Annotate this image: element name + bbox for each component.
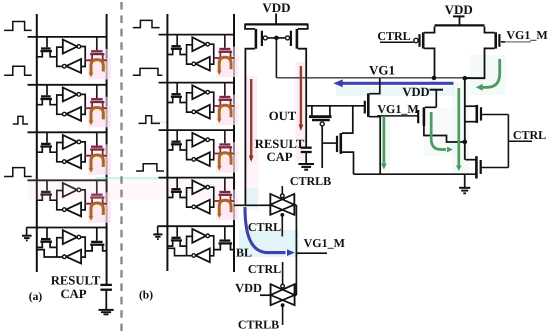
cell a3 [28, 132, 112, 175]
node pulse waveform row3 [13, 116, 28, 124]
transmission gate TG2 [271, 284, 295, 307]
wire VDD rail [245, 23, 308, 25]
wire VDD rail right [435, 24, 485, 26]
svg-text:CTRLB: CTRLB [238, 318, 279, 332]
cell a2 [28, 85, 112, 128]
transistor PMOS left of mirror pair [255, 29, 258, 49]
node pulse waveform row4 b [136, 164, 164, 171]
svg-text:VDD: VDD [402, 85, 429, 99]
glow pink red arrow 2 [296, 62, 307, 161]
wire ground rail [354, 173, 477, 175]
node dot VG1M lower [463, 140, 468, 145]
svg-text:CTRL: CTRL [513, 128, 546, 142]
annotation green arrow G3 [431, 112, 446, 150]
separator dashed line [120, 2, 122, 331]
svg-text:VDD: VDD [262, 0, 290, 15]
cell b3 [159, 130, 239, 173]
wire gate node [267, 37, 285, 39]
svg-text:CTRL: CTRL [248, 262, 281, 276]
wire OUT node horizontal [306, 105, 365, 107]
cell a4 [28, 180, 112, 223]
artifact faint pink band row4 [28, 179, 237, 200]
svg-text:BL: BL [236, 245, 252, 259]
svg-text:CTRL: CTRL [248, 220, 281, 234]
transistor VG1_M (top right, no bubble) [498, 34, 500, 47]
wire bitline column b [233, 14, 235, 272]
wire VDD stem [275, 14, 277, 25]
svg-text:VDD: VDD [445, 2, 473, 17]
svg-text:OUT: OUT [269, 109, 297, 123]
capacitor RESULT CAP column a [100, 284, 112, 286]
capacitor MOS boost (CTRL) [466, 105, 477, 107]
transistor NMOS precharge (gate CTRLB) [336, 136, 338, 152]
annotation blue arrow VG1 [341, 82, 454, 85]
cell b4 [159, 178, 239, 221]
wire VG1 net [276, 77, 484, 79]
svg-text:RESULT: RESULT [51, 273, 101, 287]
node pulse waveform row2 b [133, 68, 163, 75]
transmission gate TG1 [281, 186, 283, 194]
wire CTRL loop vertical [507, 115, 509, 168]
wire VDD T lower [430, 89, 444, 91]
annotation green arrow G1 [383, 117, 386, 164]
wire VG1M node vertical [464, 78, 466, 160]
annotation red arrow 1 [250, 79, 252, 156]
wire bus line column a [36, 14, 38, 272]
node dot VG1 right [463, 76, 468, 81]
svg-text:CTRLB: CTRLB [290, 174, 331, 188]
svg-text:CAP: CAP [266, 150, 292, 164]
wire CTRLB line [321, 126, 323, 168]
node dot VG1 left [432, 76, 437, 81]
glow cyan blue arrow 2 [239, 230, 299, 257]
svg-text:VG1: VG1 [369, 63, 395, 78]
artifact cyan streak [95, 177, 175, 179]
wire VG1_M gate lead gray [501, 41, 531, 43]
wire bus line column b [166, 14, 168, 271]
cell a5 [22, 228, 107, 264]
cell b1 [159, 35, 239, 78]
wire output column line a [106, 14, 108, 285]
capacitor MOS boost cap (CTRLB) [311, 106, 313, 116]
transistor PMOS CTRL (top right) [414, 38, 418, 42]
wire VG1_M stub [296, 252, 327, 254]
wire CTRL underline [508, 140, 532, 142]
node gate junction dot [274, 36, 279, 41]
capacitor RESULT CAP mid [301, 147, 312, 149]
cell b5 [153, 226, 234, 262]
svg-text:CTRL: CTRL [377, 29, 410, 43]
wire TG2 CTRLB stub [282, 305, 284, 325]
cell b2 [159, 83, 239, 126]
node pulse waveform row1 [4, 22, 32, 31]
wire TG vertical connector [295, 205, 297, 295]
svg-text:CAP: CAP [60, 287, 86, 301]
transistor NMOS discharge (gate CTRL) [466, 159, 477, 161]
glow cyan right areas [470, 55, 506, 95]
wire VDD to TG2 [260, 294, 271, 296]
wire gate node down [275, 38, 277, 78]
wire VDD stem right [453, 15, 465, 17]
cell a1 [28, 37, 112, 80]
wire CTRL gate lead [380, 41, 414, 43]
node pulse waveform row2 [4, 66, 32, 75]
annotation blue arrow 2 (BL to VG1_M) [245, 207, 286, 253]
svg-text:VDD: VDD [235, 281, 262, 295]
svg-text:VG1_M: VG1_M [377, 102, 418, 116]
wire BL horizontal [234, 204, 258, 206]
transistor follower (gate from OUT) [364, 101, 366, 114]
node pulse waveform row4 [4, 168, 32, 177]
node pulse waveform row1 b [133, 20, 160, 27]
annotation red arrow 2 [300, 66, 302, 125]
annotation green arrow G4 [483, 59, 500, 87]
transistor PMOS VG1_M-gated [417, 110, 419, 123]
svg-text:VG1_M: VG1_M [506, 28, 547, 42]
svg-text:(b): (b) [139, 290, 153, 302]
glow pink red arrow 1 [246, 76, 257, 164]
wire TG2 CTRL stub [282, 262, 284, 285]
node pulse waveform row3 b [139, 116, 161, 124]
transistor PMOS right of mirror pair [296, 29, 299, 49]
annotation green arrow G2 [457, 88, 460, 166]
wire TG1 CTRL stub [281, 215, 283, 237]
wire VG1_M underline lead [377, 115, 418, 117]
ground right [464, 174, 466, 187]
svg-text:(a): (a) [29, 291, 43, 303]
svg-text:VG1_M: VG1_M [304, 236, 345, 250]
